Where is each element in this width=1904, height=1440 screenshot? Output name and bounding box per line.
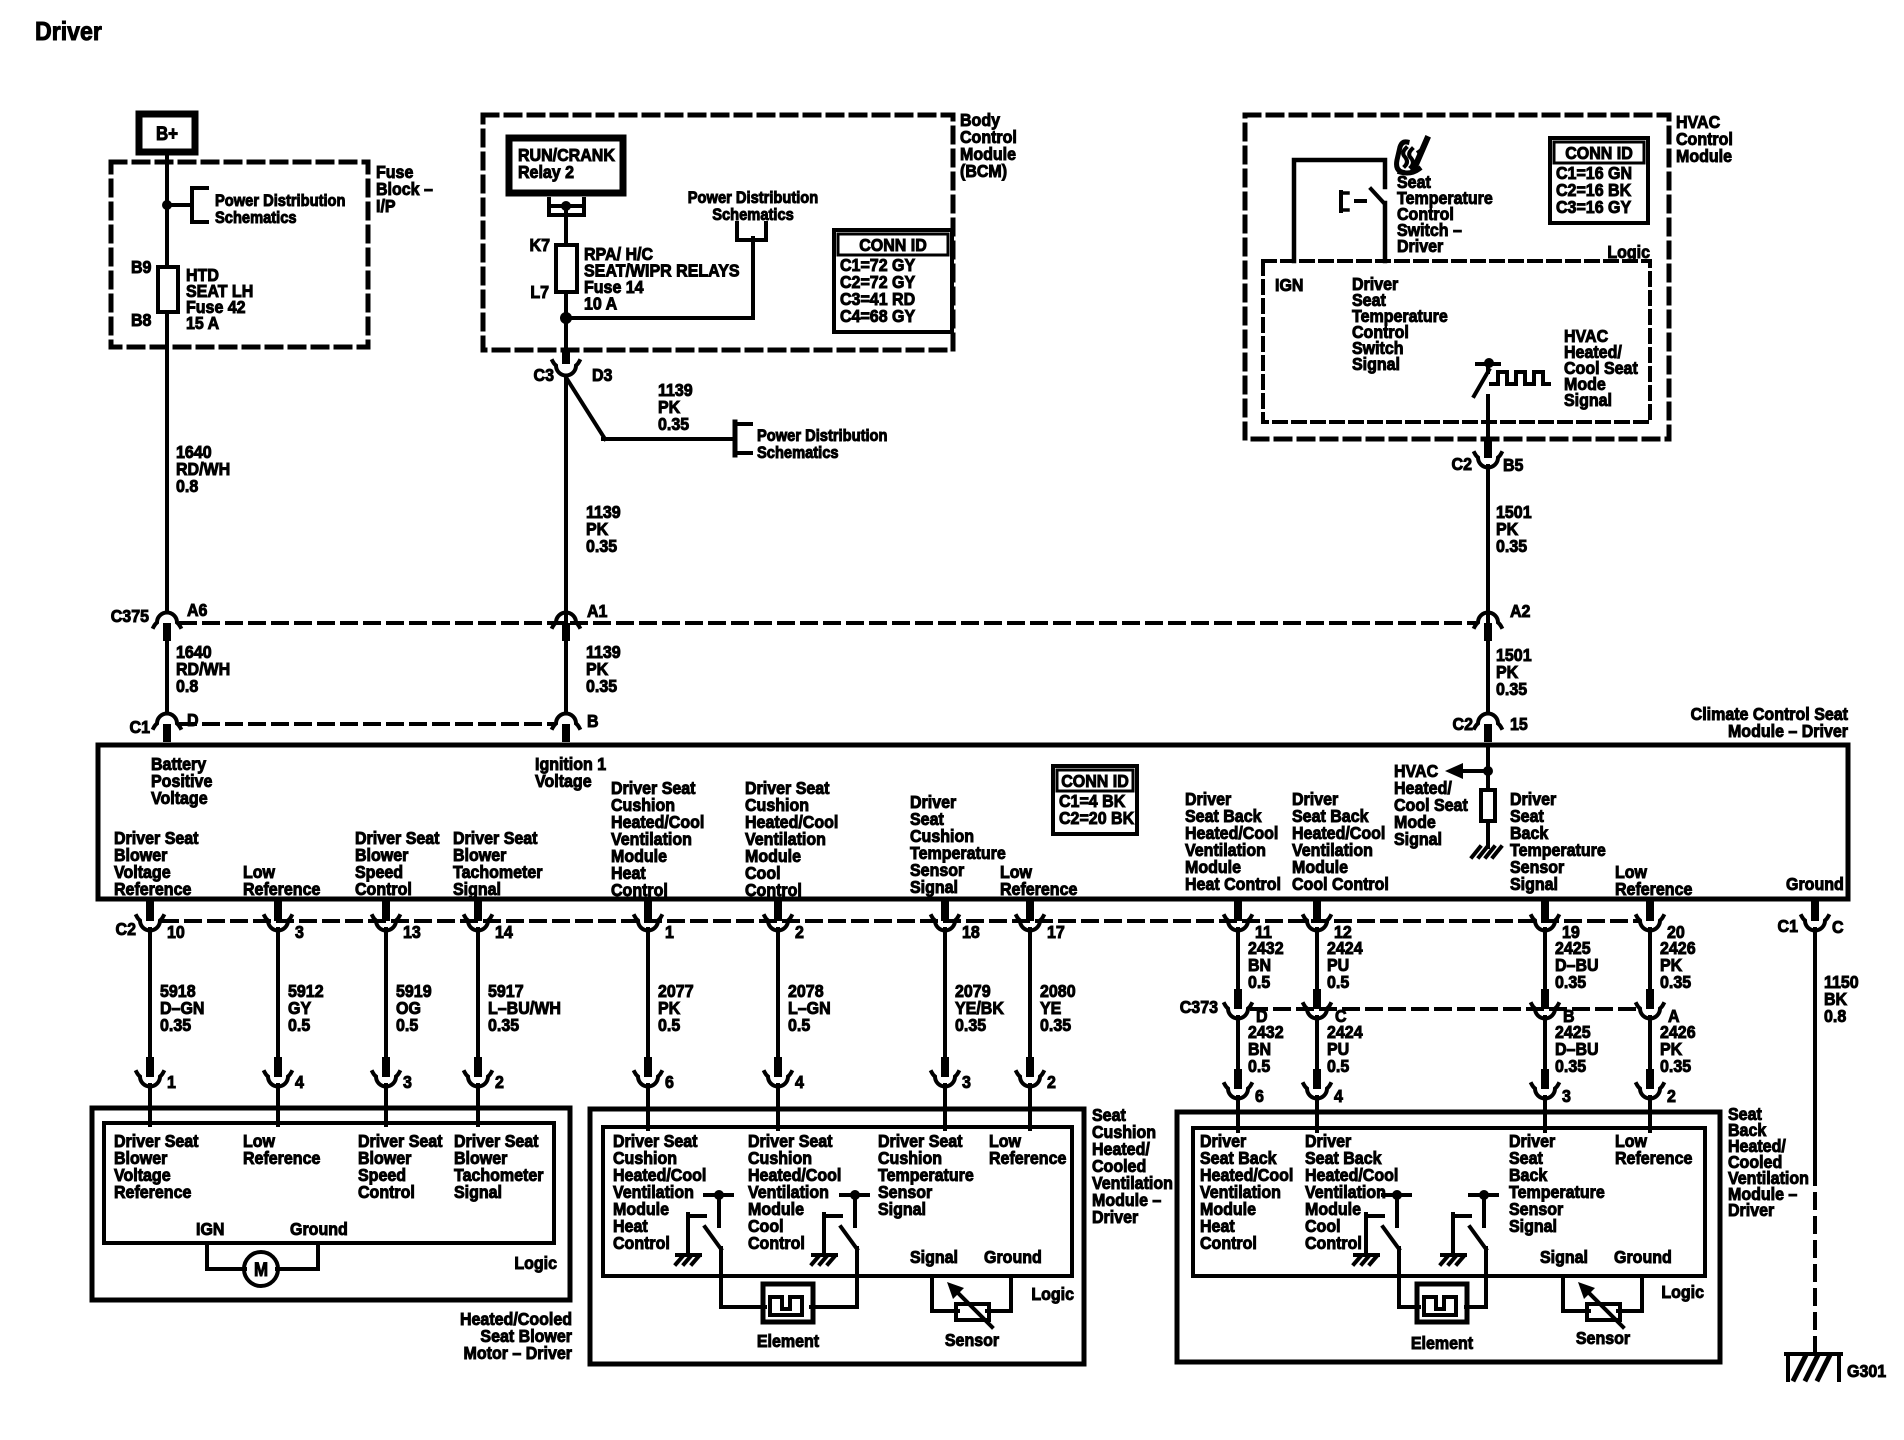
svg-text:4: 4	[1334, 1086, 1343, 1106]
svg-text:B+: B+	[156, 123, 178, 144]
svg-text:10 A: 10 A	[584, 294, 617, 314]
svg-text:0.35: 0.35	[586, 676, 617, 696]
svg-text:B9: B9	[131, 257, 151, 277]
svg-text:Schematics: Schematics	[215, 209, 297, 227]
svg-text:2: 2	[495, 1072, 504, 1092]
svg-text:CONN ID: CONN ID	[859, 235, 927, 255]
svg-text:C2: C2	[116, 919, 136, 939]
svg-text:0.35: 0.35	[1660, 972, 1691, 992]
svg-text:Signal: Signal	[1540, 1247, 1588, 1267]
svg-text:2: 2	[1667, 1086, 1676, 1106]
svg-text:Power Distribution: Power Distribution	[757, 427, 887, 445]
svg-text:Signal: Signal	[910, 1247, 958, 1267]
svg-text:10: 10	[167, 922, 185, 942]
svg-text:0.35: 0.35	[1555, 972, 1586, 992]
svg-text:1: 1	[167, 1072, 176, 1092]
svg-text:3: 3	[1562, 1086, 1571, 1106]
svg-text:1: 1	[665, 922, 674, 942]
svg-text:Driver: Driver	[1397, 236, 1444, 256]
svg-text:Element: Element	[757, 1331, 820, 1351]
svg-text:0.5: 0.5	[788, 1015, 810, 1035]
svg-text:Element: Element	[1411, 1333, 1474, 1353]
svg-text:Schematics: Schematics	[757, 444, 839, 462]
svg-text:0.5: 0.5	[1248, 1056, 1270, 1076]
svg-text:Reference: Reference	[114, 1182, 191, 1202]
svg-text:Sensor: Sensor	[1576, 1328, 1631, 1348]
svg-text:Schematics: Schematics	[712, 206, 794, 224]
svg-text:D3: D3	[592, 365, 612, 385]
svg-text:17: 17	[1047, 922, 1065, 942]
svg-text:Signal: Signal	[1509, 1216, 1557, 1236]
svg-text:C2: C2	[1453, 714, 1473, 734]
svg-text:Reference: Reference	[1615, 1148, 1692, 1168]
svg-text:G301: G301	[1847, 1361, 1886, 1381]
svg-text:3: 3	[962, 1072, 971, 1092]
svg-text:IGN: IGN	[1275, 275, 1303, 295]
svg-text:Reference: Reference	[243, 879, 320, 899]
svg-text:Control: Control	[1305, 1233, 1362, 1253]
svg-text:4: 4	[295, 1072, 304, 1092]
svg-text:(BCM): (BCM)	[960, 161, 1007, 181]
svg-text:13: 13	[403, 922, 421, 942]
svg-text:Power Distribution: Power Distribution	[215, 192, 345, 210]
svg-text:2: 2	[1047, 1072, 1056, 1092]
svg-text:Signal: Signal	[1510, 874, 1558, 894]
svg-text:Motor – Driver: Motor – Driver	[464, 1343, 573, 1363]
svg-text:0.5: 0.5	[1327, 1056, 1349, 1076]
svg-text:Control: Control	[611, 880, 668, 900]
svg-text:Ground: Ground	[1614, 1247, 1672, 1267]
svg-text:Power Distribution: Power Distribution	[688, 189, 818, 207]
svg-text:K7: K7	[530, 235, 550, 255]
svg-text:B5: B5	[1503, 455, 1523, 475]
svg-text:Cool Control: Cool Control	[1292, 874, 1389, 894]
svg-text:Voltage: Voltage	[151, 788, 208, 808]
svg-text:Heat Control: Heat Control	[1185, 874, 1281, 894]
svg-text:C: C	[1832, 917, 1844, 937]
svg-text:C2: C2	[1452, 454, 1472, 474]
svg-text:0.35: 0.35	[1496, 536, 1527, 556]
svg-text:6: 6	[665, 1072, 674, 1092]
svg-text:2: 2	[795, 922, 804, 942]
svg-text:0.35: 0.35	[1040, 1015, 1071, 1035]
svg-text:Sensor: Sensor	[945, 1330, 1000, 1350]
svg-text:0.35: 0.35	[160, 1015, 191, 1035]
svg-text:C2=20 BK: C2=20 BK	[1059, 808, 1135, 828]
svg-text:0.35: 0.35	[1660, 1056, 1691, 1076]
svg-text:0.35: 0.35	[658, 414, 689, 434]
svg-text:B: B	[587, 711, 599, 731]
svg-text:Ground: Ground	[984, 1247, 1042, 1267]
svg-text:A2: A2	[1510, 601, 1530, 621]
svg-text:Control: Control	[745, 880, 802, 900]
svg-text:C1: C1	[130, 717, 150, 737]
svg-text:Logic: Logic	[1031, 1284, 1074, 1304]
svg-text:Control: Control	[748, 1233, 805, 1253]
svg-text:0.8: 0.8	[176, 476, 198, 496]
svg-text:Signal: Signal	[910, 877, 958, 897]
svg-text:CONN ID: CONN ID	[1565, 143, 1633, 163]
svg-text:3: 3	[295, 922, 304, 942]
svg-text:6: 6	[1255, 1086, 1264, 1106]
svg-text:0.8: 0.8	[1824, 1006, 1846, 1026]
svg-text:C373: C373	[1180, 997, 1218, 1017]
svg-text:IGN: IGN	[196, 1219, 224, 1239]
svg-text:0.8: 0.8	[176, 676, 198, 696]
svg-text:18: 18	[962, 922, 980, 942]
svg-text:Logic: Logic	[514, 1253, 557, 1273]
svg-text:M: M	[254, 1259, 268, 1280]
svg-text:Control: Control	[355, 879, 412, 899]
svg-text:Voltage: Voltage	[535, 771, 592, 791]
svg-text:Signal: Signal	[453, 879, 501, 899]
svg-text:I/P: I/P	[376, 196, 396, 216]
svg-text:Ground: Ground	[1786, 874, 1844, 894]
svg-text:Signal: Signal	[454, 1182, 502, 1202]
svg-text:C1: C1	[1778, 916, 1798, 936]
svg-text:14: 14	[495, 922, 513, 942]
svg-text:C3: C3	[534, 365, 554, 385]
svg-text:3: 3	[403, 1072, 412, 1092]
svg-text:L7: L7	[530, 282, 549, 302]
svg-text:Driver: Driver	[35, 18, 102, 47]
svg-text:C4=68 GY: C4=68 GY	[840, 306, 916, 326]
svg-text:Relay 2: Relay 2	[518, 162, 574, 182]
svg-text:Control: Control	[613, 1233, 670, 1253]
svg-text:Signal: Signal	[878, 1199, 926, 1219]
svg-text:0.35: 0.35	[955, 1015, 986, 1035]
svg-text:Signal: Signal	[1564, 390, 1612, 410]
svg-text:Control: Control	[1200, 1233, 1257, 1253]
svg-text:A1: A1	[587, 601, 607, 621]
svg-text:Signal: Signal	[1352, 354, 1400, 374]
svg-text:0.5: 0.5	[396, 1015, 418, 1035]
svg-text:D: D	[187, 710, 199, 730]
svg-text:15 A: 15 A	[186, 313, 219, 333]
svg-text:C3=16 GY: C3=16 GY	[1556, 197, 1632, 217]
svg-text:Reference: Reference	[243, 1148, 320, 1168]
svg-text:Reference: Reference	[114, 879, 191, 899]
svg-text:Driver: Driver	[1728, 1200, 1775, 1220]
svg-text:0.35: 0.35	[1555, 1056, 1586, 1076]
svg-text:Module: Module	[1676, 146, 1732, 166]
svg-text:A6: A6	[187, 600, 207, 620]
svg-text:0.5: 0.5	[1248, 972, 1270, 992]
svg-text:Module – Driver: Module – Driver	[1728, 721, 1848, 741]
svg-text:0.5: 0.5	[658, 1015, 680, 1035]
svg-text:Reference: Reference	[1000, 879, 1077, 899]
svg-text:0.5: 0.5	[1327, 972, 1349, 992]
svg-text:C375: C375	[111, 606, 149, 626]
svg-text:0.5: 0.5	[288, 1015, 310, 1035]
svg-text:Control: Control	[358, 1182, 415, 1202]
svg-text:15: 15	[1510, 714, 1528, 734]
svg-text:Logic: Logic	[1661, 1282, 1704, 1302]
svg-text:4: 4	[795, 1072, 804, 1092]
svg-text:0.35: 0.35	[1496, 679, 1527, 699]
svg-text:CONN ID: CONN ID	[1061, 771, 1129, 791]
svg-text:Signal: Signal	[1394, 829, 1442, 849]
svg-text:Ground: Ground	[290, 1219, 348, 1239]
svg-text:Driver: Driver	[1092, 1207, 1139, 1227]
svg-text:Reference: Reference	[989, 1148, 1066, 1168]
svg-text:0.35: 0.35	[586, 536, 617, 556]
svg-text:Reference: Reference	[1615, 879, 1692, 899]
svg-text:B8: B8	[131, 310, 151, 330]
svg-text:0.35: 0.35	[488, 1015, 519, 1035]
